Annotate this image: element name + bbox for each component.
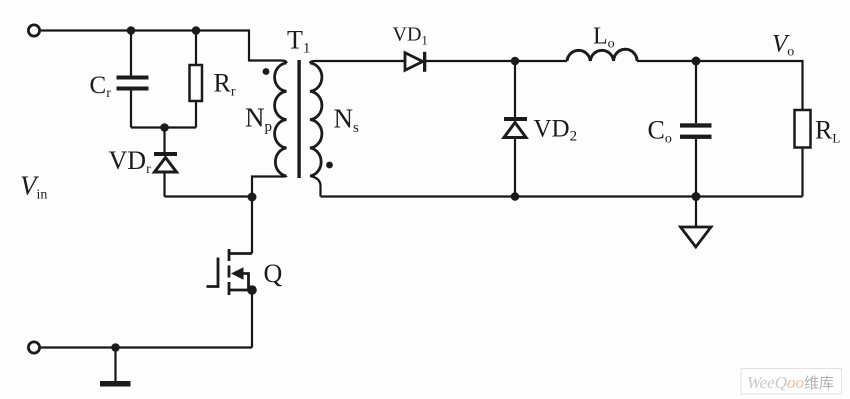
- svg-text:WeeQoo维库: WeeQoo维库: [747, 373, 834, 392]
- svg-text:Q: Q: [264, 259, 283, 288]
- svg-text:VDr: VDr: [109, 146, 152, 177]
